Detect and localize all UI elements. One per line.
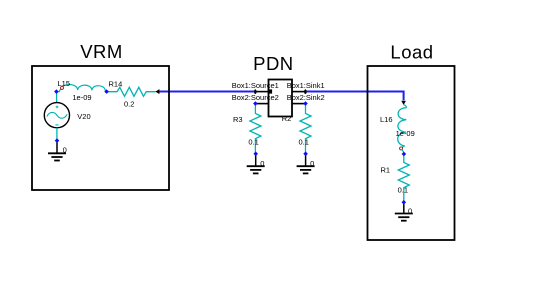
block Load box bbox=[368, 66, 455, 240]
svg-text:0.1: 0.1 bbox=[299, 138, 309, 147]
svg-text:L16: L16 bbox=[380, 115, 393, 124]
resistor R3 bbox=[250, 104, 261, 154]
svg-text:R1: R1 bbox=[381, 166, 391, 175]
node junction L15 left bbox=[54, 89, 59, 94]
block PDN box bbox=[269, 80, 293, 117]
node junction R2 top bbox=[303, 101, 308, 106]
pin tick Box1:Sink1 bbox=[304, 89, 306, 94]
wire V20 top lead bbox=[56, 92, 58, 103]
resistor R14 bbox=[107, 87, 156, 96]
svg-text:VRM: VRM bbox=[80, 41, 123, 62]
pin Box2:Sink2 line bbox=[292, 103, 306, 105]
pin marker L16 pin1 bbox=[400, 147, 403, 150]
svg-text:0: 0 bbox=[310, 159, 314, 168]
svg-text:PDN: PDN bbox=[253, 53, 294, 74]
svg-text:1e-09: 1e-09 bbox=[396, 129, 415, 138]
svg-text:Box1:Source1: Box1:Source1 bbox=[232, 81, 279, 90]
wire V20 bottom lead bbox=[56, 128, 58, 141]
svg-text:1e-09: 1e-09 bbox=[72, 93, 91, 102]
svg-text:R14: R14 bbox=[109, 80, 123, 89]
inductor L15 bbox=[57, 84, 107, 91]
source V20 bbox=[44, 103, 69, 128]
svg-text:0.2: 0.2 bbox=[124, 100, 134, 109]
wire L16 to R1 lead bbox=[402, 150, 404, 154]
svg-text:0.1: 0.1 bbox=[398, 185, 408, 194]
svg-text:0: 0 bbox=[408, 207, 412, 216]
wire main net PDN to Load bbox=[305, 92, 403, 101]
ground 0 of VRM bbox=[48, 141, 66, 161]
ground 0 of R3 bbox=[247, 154, 265, 174]
svg-text:0.1: 0.1 bbox=[248, 138, 258, 147]
svg-text:L15: L15 bbox=[58, 79, 71, 88]
node junction R3 top bbox=[253, 101, 258, 106]
ground 0 of Load bbox=[395, 202, 413, 220]
svg-text:V20: V20 bbox=[77, 112, 90, 121]
block VRM box bbox=[32, 66, 169, 190]
node junction R1-ground bbox=[402, 200, 407, 205]
node junction R3 bottom bbox=[253, 152, 258, 157]
node junction V20-ground bbox=[55, 138, 60, 143]
svg-text:Box1:Sink1: Box1:Sink1 bbox=[287, 81, 325, 90]
svg-text:Box2:Source2: Box2:Source2 bbox=[232, 93, 279, 102]
pin Box1:Source1 line bbox=[255, 91, 269, 93]
pin1 square marker PDN bbox=[268, 89, 272, 93]
pin Box1:Sink1 line bbox=[292, 91, 306, 93]
pin Box2:Source2 line bbox=[255, 103, 268, 105]
svg-text:R2: R2 bbox=[282, 114, 292, 123]
pin marker L15 pin1 bbox=[61, 86, 64, 89]
pin tick Box1:Source1 bbox=[254, 89, 256, 94]
ground 0 of R2 bbox=[297, 154, 315, 174]
resistor R2 bbox=[300, 104, 311, 154]
wire main net VRM to PDN bbox=[158, 91, 256, 93]
node junction R2 bottom bbox=[303, 152, 308, 157]
arrowhead wire end at R14 bbox=[155, 89, 159, 94]
node junction L16-R1 bbox=[402, 152, 407, 157]
resistor R1 bbox=[398, 154, 409, 202]
svg-text:Box2:Sink2: Box2:Sink2 bbox=[287, 93, 325, 102]
svg-text:R3: R3 bbox=[233, 115, 243, 124]
inductor L16 bbox=[398, 105, 407, 148]
svg-text:0: 0 bbox=[63, 145, 67, 154]
arrowhead wire end at L16 bbox=[401, 101, 406, 105]
node junction L15-R14 bbox=[104, 89, 109, 94]
svg-text:0: 0 bbox=[260, 159, 264, 168]
svg-text:Load: Load bbox=[390, 41, 433, 62]
